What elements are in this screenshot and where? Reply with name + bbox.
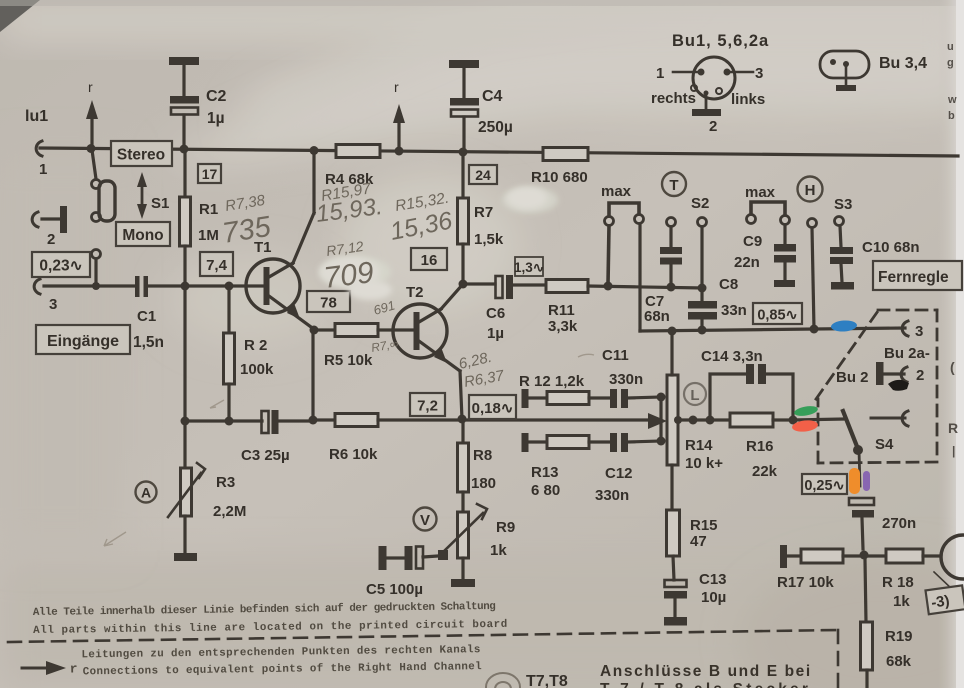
capacitor C3 electrolytic (262, 410, 279, 434)
svg-text:330n: 330n (595, 487, 629, 504)
potentiometer R9 with arrow (441, 504, 487, 558)
svg-text:R11: R11 (548, 302, 575, 319)
svg-text:10 k+: 10 k+ (685, 455, 723, 472)
box 0,85~ (753, 303, 802, 324)
svg-text:1k: 1k (490, 542, 507, 559)
capacitor C9 with end bar (774, 225, 796, 287)
svg-text:T 7 / T 8 als Stecker: T 7 / T 8 als Stecker (600, 681, 811, 688)
svg-text:47: 47 (690, 533, 707, 550)
svg-text:22n: 22n (734, 254, 760, 271)
capacitor C15 (849, 498, 874, 549)
resistor R18 (886, 549, 941, 563)
node junction at r-arrow left (87, 144, 96, 153)
svg-text:R8: R8 (473, 447, 492, 464)
contact under T circle (667, 218, 676, 227)
svg-text:0,25∿: 0,25∿ (804, 478, 844, 494)
wire junction to switch S1 (92, 150, 96, 179)
node H contact on tone rail (810, 325, 819, 334)
bottom heading serif (600, 663, 812, 688)
svg-text:24: 24 (475, 167, 491, 183)
svg-text:|: | (952, 444, 955, 458)
svg-text:250µ: 250µ (478, 119, 513, 136)
box Mono (116, 222, 170, 246)
transistor T1 (246, 259, 311, 327)
svg-text:r: r (70, 661, 78, 676)
connector Bu1 pin 3 terminal (34, 279, 40, 294)
capacitor C5 electrolytic with terminal and wiper tap (379, 546, 449, 570)
resistor R2 (224, 286, 235, 421)
resistor R17 row with terminal (780, 545, 886, 568)
box 0,25~ (802, 474, 847, 494)
contact under H circle (808, 219, 817, 330)
svg-text:r: r (88, 79, 93, 95)
svg-text:68n: 68n (644, 308, 670, 325)
wire trimmer right leg down to tone rail (640, 224, 905, 331)
svg-text:7,2: 7,2 (417, 398, 438, 415)
svg-text:C13: C13 (699, 571, 727, 588)
switch S4 lever (843, 411, 863, 486)
node R2 bottom (225, 417, 234, 426)
capacitor C10 with end bar (830, 226, 854, 290)
node C3/R6/T1emitter (278, 416, 318, 425)
svg-text:C3 25µ: C3 25µ (241, 447, 290, 464)
svg-text:C9: C9 (743, 233, 762, 250)
svg-text:T7,T8: T7,T8 (526, 673, 568, 688)
svg-text:g: g (947, 57, 954, 69)
svg-text:270n: 270n (882, 515, 916, 532)
svg-text:-3): -3) (930, 592, 951, 611)
svg-text:C8: C8 (719, 276, 738, 293)
trimmer bracket max (treble) (747, 202, 790, 225)
connector Bu1 pin 2 terminal with plug (32, 206, 67, 233)
svg-text:R10 680: R10 680 (531, 169, 588, 186)
svg-text:6 80: 6 80 (531, 482, 560, 499)
svg-text:R: R (948, 420, 958, 436)
contact S2 (698, 218, 707, 227)
svg-text:u: u (947, 41, 954, 53)
svg-text:V: V (420, 512, 430, 529)
svg-text:T2: T2 (406, 284, 424, 301)
label circle A (136, 482, 157, 503)
svg-text:2: 2 (709, 118, 717, 135)
handwritten annotations (220, 180, 506, 391)
svg-text:0,23∿: 0,23∿ (39, 258, 82, 275)
svg-text:Bu1, 5,6,2a: Bu1, 5,6,2a (672, 32, 769, 50)
svg-text:links: links (731, 91, 765, 108)
box Fernregler (873, 261, 962, 290)
svg-text:78: 78 (320, 295, 337, 312)
svg-text:R1: R1 (199, 201, 218, 218)
potentiometer R3 with arrow and ground (168, 421, 205, 561)
boxed value labels (32, 141, 964, 614)
svg-text:100k: 100k (240, 361, 274, 378)
box 24 (469, 165, 497, 184)
svg-text:68k: 68k (886, 653, 912, 670)
node C7 bottom on mid bus (667, 283, 676, 292)
capacitor C13 electrolytic (664, 580, 687, 617)
right edge partial glyphs (947, 41, 958, 458)
label circle L (684, 383, 706, 405)
svg-text:S2: S2 (691, 195, 709, 212)
box 7,4 (200, 252, 233, 276)
svg-text:Mono: Mono (122, 227, 163, 244)
svg-text:C1: C1 (137, 308, 156, 325)
svg-text:C5 100µ: C5 100µ (366, 581, 423, 598)
node C15/R17/R18/R19 (860, 551, 869, 560)
node output row a (674, 416, 682, 424)
svg-text:709: 709 (322, 256, 376, 295)
svg-text:33n: 33n (721, 302, 747, 319)
svg-text:7,4: 7,4 (206, 257, 228, 274)
svg-text:22k: 22k (752, 463, 778, 480)
resistor R7 (458, 152, 469, 282)
svg-text:R14: R14 (685, 437, 713, 454)
svg-text:1k: 1k (893, 593, 910, 610)
svg-text:1,5n: 1,5n (133, 334, 164, 351)
node mid bus end at S2 line (698, 284, 707, 293)
svg-text:Bu 2: Bu 2 (836, 369, 869, 386)
svg-text:R 18: R 18 (882, 574, 914, 591)
svg-text:Stereo: Stereo (117, 147, 165, 164)
svg-text:3: 3 (755, 65, 763, 82)
svg-text:S1: S1 (151, 195, 169, 212)
node C4/R7 on bus (459, 148, 468, 157)
resistor R11 (546, 280, 702, 293)
svg-text:17: 17 (202, 166, 218, 182)
terminal 3 output (902, 321, 908, 336)
wire T1 collector to R4 node (293, 150, 314, 263)
node pot left leg on mid bus (604, 282, 613, 291)
svg-text:R7: R7 (474, 204, 493, 221)
box -3V (925, 585, 964, 614)
svg-text:(: ( (950, 359, 955, 375)
svg-text:330n: 330n (609, 371, 643, 388)
svg-text:10µ: 10µ (701, 589, 726, 606)
node R2 top / T1 base (225, 282, 234, 291)
node output row b (689, 416, 698, 425)
resistor R15 (667, 510, 680, 580)
node C12 to pot column (657, 437, 666, 446)
svg-text:max: max (601, 183, 632, 200)
wire T2 emitter down (460, 371, 462, 419)
trimmer bracket max (bass) (605, 203, 644, 284)
node T2 collector (459, 280, 468, 289)
svg-text:3: 3 (49, 296, 57, 313)
switch S1 selector double arrow (137, 172, 147, 219)
svg-text:R 2: R 2 (244, 337, 267, 354)
node T1 emitter / R5 (310, 326, 319, 335)
mark black pen (888, 380, 909, 391)
svg-text:2,2M: 2,2M (213, 503, 246, 520)
arrow legend bottom left (22, 661, 66, 675)
capacitor C7 (660, 227, 682, 285)
svg-text:R13: R13 (531, 464, 559, 481)
svg-text:Fernregle: Fernregle (878, 269, 949, 286)
wire feedback row (185, 419, 262, 422)
colored felt-pen marks (791, 320, 909, 494)
svg-text:1µ: 1µ (207, 110, 225, 127)
svg-text:Eingänge: Eingänge (47, 333, 119, 350)
svg-text:C10 68n: C10 68n (862, 239, 920, 256)
box 17 (198, 164, 221, 183)
wire arrow to right channel (left) (86, 100, 98, 146)
dashed remote-control box (816, 310, 937, 463)
node T2 emitter on wiper line (458, 415, 467, 424)
ground under R9 (451, 558, 475, 587)
svg-text:1M: 1M (198, 227, 219, 244)
wire mid bus T2 collector row (463, 282, 495, 285)
label circle H (798, 177, 823, 202)
node S1 line joins input (92, 282, 100, 290)
svg-text:w: w (947, 94, 957, 106)
svg-text:C12: C12 (605, 465, 633, 482)
connector Bu1,5,6,2a DIN socket (673, 57, 753, 116)
svg-text:L: L (690, 387, 699, 404)
pencil loop bottom (486, 673, 520, 688)
capacitor C2 electrolytic with terminal bar (169, 57, 199, 148)
transistor at right edge (934, 535, 964, 590)
svg-text:rechts: rechts (651, 90, 696, 107)
wire T1 emitter column (311, 330, 314, 420)
box 0,23~ (32, 252, 90, 277)
box 78 (307, 291, 350, 312)
svg-text:max: max (745, 184, 776, 201)
box 7,2 (410, 393, 445, 416)
ground under C13 (664, 617, 687, 626)
svg-text:lu1: lu1 (25, 108, 48, 125)
wire arrow to right channel (mid) (393, 104, 405, 149)
node R14 top on tone rail (668, 327, 677, 336)
svg-text:1µ: 1µ (487, 325, 504, 342)
wire T2 collector up to C6 node (441, 284, 463, 309)
svg-text:16: 16 (421, 252, 438, 269)
svg-text:R15: R15 (690, 517, 718, 534)
resistor R12 row with terminal (522, 389, 611, 408)
mark red (791, 419, 818, 433)
switch S1 contacts and slider (92, 180, 116, 222)
resistor R19 (861, 560, 873, 688)
svg-text:3,3k: 3,3k (548, 318, 578, 335)
svg-text:1,3∿: 1,3∿ (514, 260, 544, 275)
svg-text:180: 180 (471, 475, 496, 492)
mark blue (831, 320, 858, 333)
node C14 left (706, 416, 715, 425)
wire top supply bus (40, 148, 958, 156)
capacitor C12 (610, 433, 661, 452)
connector Bu3,4 jack (820, 51, 869, 91)
svg-text:0,18∿: 0,18∿ (472, 400, 514, 417)
capacitor C8 with wire through mid bus (688, 227, 717, 330)
mark orange (849, 468, 860, 494)
box 1,3~ (514, 257, 544, 276)
svg-text:3: 3 (915, 323, 923, 340)
typewriter notes (33, 601, 509, 679)
mark violet (863, 471, 870, 491)
svg-text:2: 2 (47, 231, 55, 248)
box Eingaenge (36, 325, 130, 354)
svg-text:S3: S3 (834, 196, 852, 213)
resistor R4 (336, 145, 380, 158)
svg-text:Anschlüsse B und E bei: Anschlüsse B und E bei (600, 663, 812, 680)
svg-text:R6 10k: R6 10k (329, 446, 378, 463)
svg-text:Bu 2a-: Bu 2a- (884, 345, 930, 362)
node C11 to pot column (657, 393, 666, 402)
svg-text:b: b (948, 110, 955, 122)
svg-text:2: 2 (916, 367, 924, 384)
connector Bu2 plug (876, 362, 907, 385)
label circle V (414, 508, 437, 531)
resistor R5 (314, 324, 412, 337)
capacitor C11 (610, 389, 661, 408)
switch S1 lower contact (92, 250, 101, 285)
resistor R10 (543, 148, 588, 161)
contact S3 (835, 217, 844, 226)
wire joining C11/C12 nodes to wiper (659, 397, 662, 441)
node C2/R1 on bus (180, 145, 189, 154)
wire volume output row (678, 418, 730, 421)
svg-text:H: H (805, 182, 816, 199)
resistor R13 row with terminal (522, 433, 611, 452)
svg-text:R9: R9 (496, 519, 515, 536)
node R1 bottom (181, 282, 190, 291)
resistor R16 (730, 413, 793, 427)
node R4 left (310, 146, 319, 155)
svg-text:1,5k: 1,5k (474, 231, 504, 248)
svg-text:C14 3,3n: C14 3,3n (701, 348, 763, 365)
node C14 right / R16 out (789, 416, 844, 425)
capacitor C4 electrolytic with terminal bar (449, 60, 479, 151)
potentiometer R14 with wiper arrow (648, 331, 678, 510)
switch S4 upper throw with terminal (871, 411, 908, 426)
svg-text:C2: C2 (206, 88, 227, 105)
node C8 on tone rail (698, 326, 707, 335)
svg-text:C4: C4 (482, 88, 503, 105)
node r-arrow mid (395, 147, 404, 156)
node R1/R3 column joins feedback row (181, 286, 190, 426)
connector Bu1 pin 1 terminal (36, 141, 42, 156)
resistor R1 (180, 149, 191, 284)
box 0,18~ (469, 395, 516, 419)
svg-text:A: A (141, 485, 151, 501)
mark green (793, 404, 818, 417)
svg-text:1: 1 (39, 161, 47, 178)
svg-text:r: r (394, 79, 399, 95)
svg-text:R19: R19 (885, 628, 913, 645)
label circle T (662, 172, 686, 196)
svg-text:R17 10k: R17 10k (777, 574, 834, 591)
resistor R8 (458, 421, 469, 512)
capacitor C6 electrolytic (496, 275, 547, 299)
transistor T2 (393, 304, 460, 371)
svg-text:Bu 3,4: Bu 3,4 (879, 55, 927, 72)
svg-text:1: 1 (656, 65, 664, 82)
svg-text:C11: C11 (602, 347, 629, 364)
capacitor C1 (135, 276, 148, 297)
resistor R6 (313, 414, 660, 427)
box 16 (411, 248, 447, 270)
svg-text:R 12 1,2k: R 12 1,2k (519, 373, 585, 390)
svg-text:R3: R3 (216, 474, 235, 491)
box Stereo (111, 141, 172, 166)
wire input line (44, 284, 135, 287)
svg-text:0,85∿: 0,85∿ (757, 308, 797, 324)
svg-text:C6: C6 (486, 305, 505, 322)
svg-text:S4: S4 (875, 436, 894, 453)
capacitor C14 bypass loop (710, 364, 793, 420)
dashed PCB boundary bottom (8, 630, 838, 688)
faint pencil sketch near A (104, 354, 594, 546)
label circles group (136, 172, 823, 531)
white-out correction patches (320, 187, 547, 300)
svg-text:R5 10k: R5 10k (324, 352, 373, 369)
svg-text:T: T (669, 177, 678, 194)
svg-text:R16: R16 (746, 438, 774, 455)
wire C1 to T1 base (148, 284, 263, 287)
